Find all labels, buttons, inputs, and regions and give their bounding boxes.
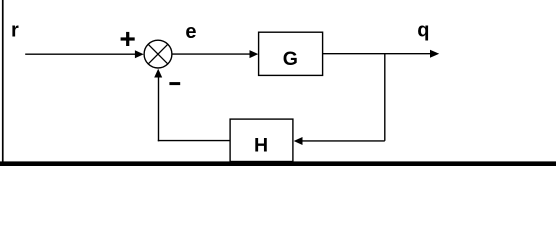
frame: left border line (decorative) xyxy=(2,0,4,163)
wire input r to summing junction xyxy=(25,50,144,58)
plus sign at summing junction input xyxy=(121,32,135,46)
block G (forward transfer function) xyxy=(259,32,323,75)
wire feedback into block H (arrow pointing left) xyxy=(294,137,385,145)
summing junction (circle with X) xyxy=(144,40,172,68)
wire block H to feedback riser xyxy=(158,140,231,142)
svg-text:r: r xyxy=(11,20,19,42)
minus sign at feedback input xyxy=(169,82,180,85)
frame: bottom border band (decorative) xyxy=(0,161,556,166)
svg-text:e: e xyxy=(185,21,196,43)
svg-text:q: q xyxy=(417,20,429,42)
wire summing junction to block G xyxy=(172,50,258,58)
svg-text:H: H xyxy=(254,134,268,156)
wire feedback riser up to summing junction (arrow pointing up) xyxy=(154,69,162,142)
svg-text:G: G xyxy=(283,48,298,70)
block H (feedback transfer function) xyxy=(230,119,293,161)
wire block G to output q xyxy=(323,50,439,58)
wire feedback branch down from output xyxy=(384,54,386,141)
